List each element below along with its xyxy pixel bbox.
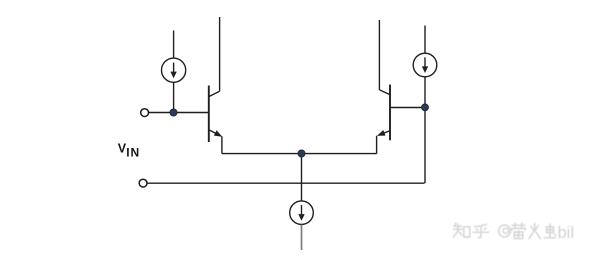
svg-text:bil: bil: [558, 224, 575, 242]
svg-text:IN: IN: [126, 146, 140, 160]
